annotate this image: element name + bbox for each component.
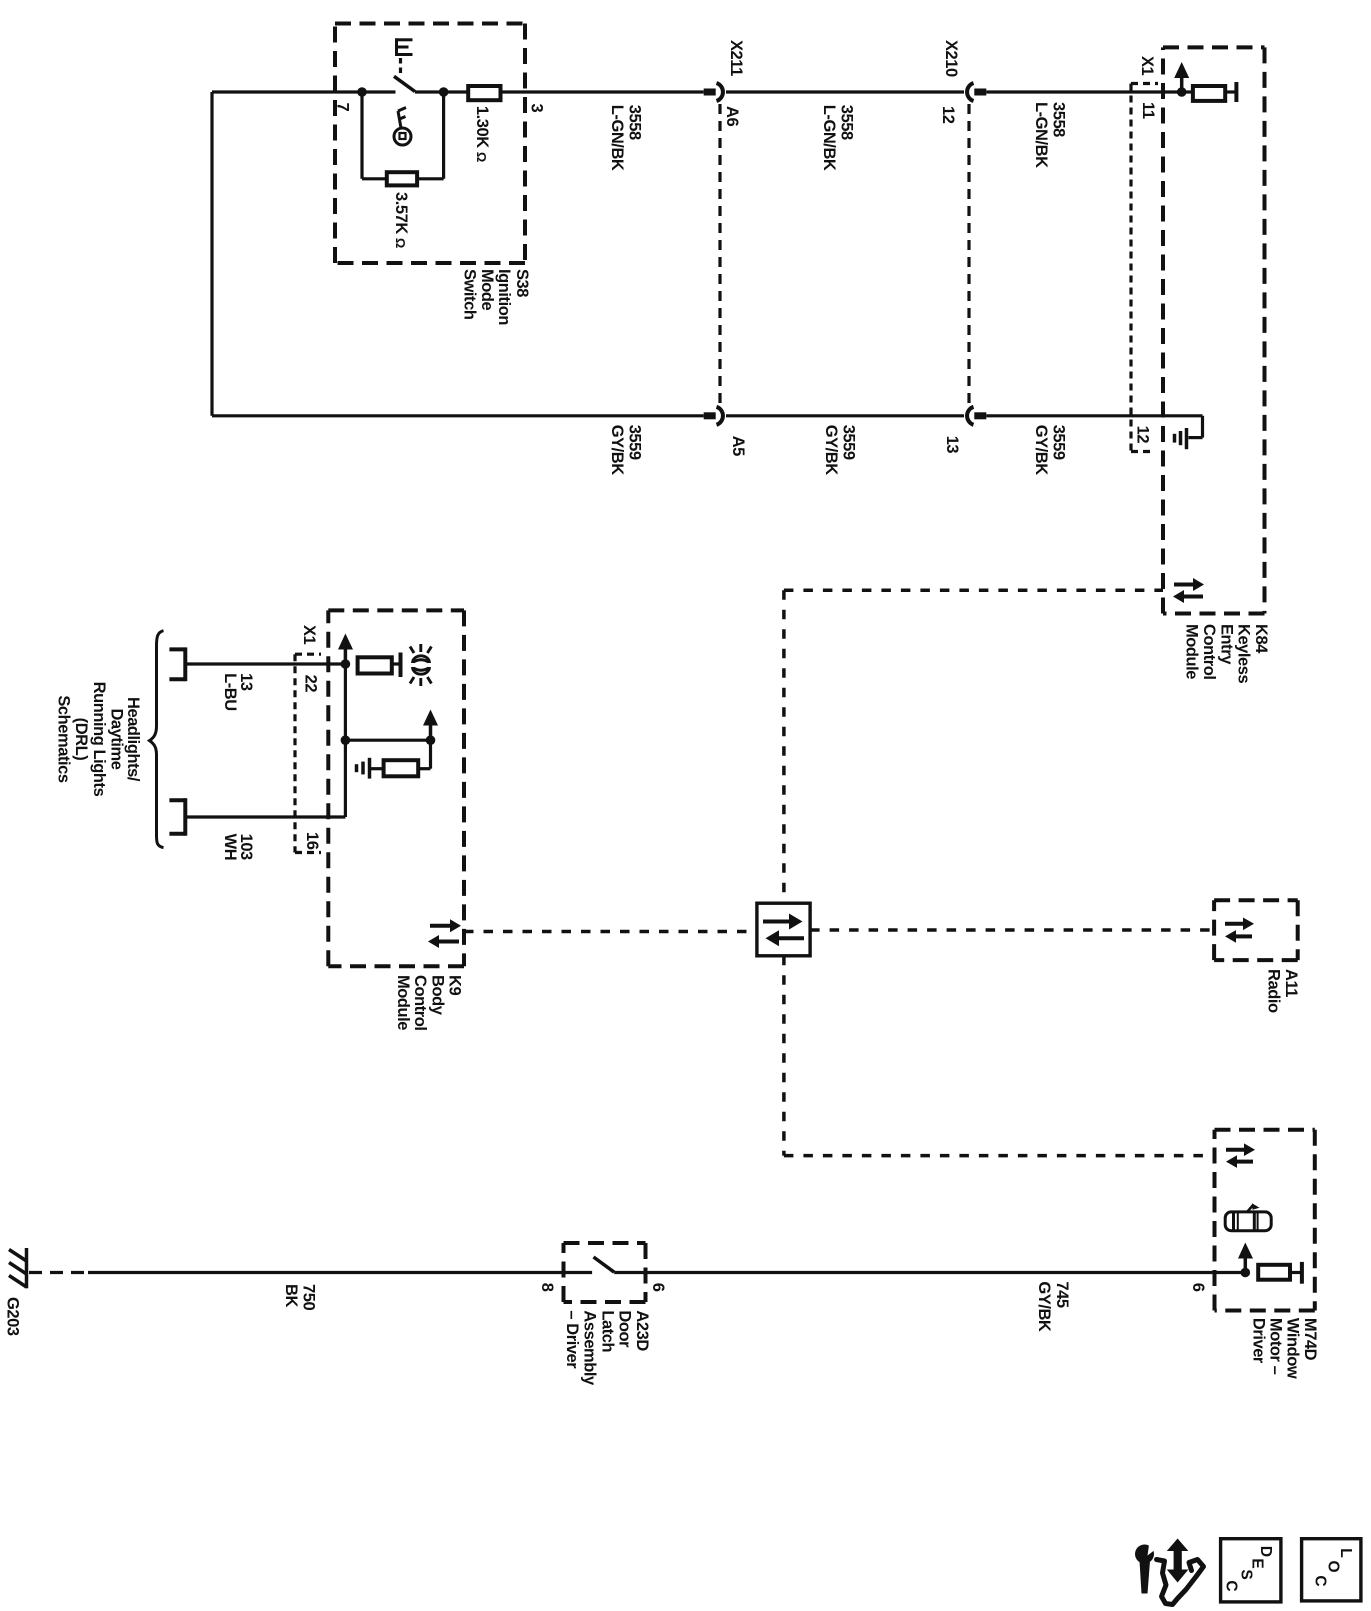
connector X210 dashed line [967, 104, 970, 404]
svg-text:L: L [1337, 1548, 1354, 1557]
connector X210 male tick pin 12 [974, 89, 986, 96]
svg-text:G203: G203 [3, 1297, 21, 1336]
left vertical wire joining pin 7 run [210, 92, 213, 416]
svg-text:WH: WH [221, 834, 239, 861]
node K9 mid branch [341, 735, 351, 745]
connector X211 female arc [717, 83, 723, 101]
svg-text:(DRL): (DRL) [72, 718, 90, 761]
DESC icon box [1221, 1539, 1281, 1602]
svg-text:Headlights/: Headlights/ [124, 697, 142, 782]
ground G203 symbol [9, 1248, 27, 1288]
svg-text:Daytime: Daytime [108, 708, 126, 769]
motor terminal bar [1300, 1262, 1304, 1284]
wire label 3558 L-GN/BK (right) [1032, 102, 1067, 168]
svg-text:A6: A6 [723, 106, 741, 126]
connector 13 female arc [967, 407, 973, 425]
wire A5 to 13 [726, 414, 964, 417]
wire X210 to K84 pin 11 [986, 90, 1181, 93]
wire 745 GY/BK [614, 1271, 1245, 1274]
wire resistor to ground [371, 767, 384, 770]
voltage arrow in K84 [1174, 62, 1189, 92]
svg-text:3559: 3559 [1050, 425, 1068, 460]
A11 radio box [1214, 900, 1298, 960]
connector 13 male tick [974, 412, 986, 419]
svg-text:– Driver: – Driver [563, 1310, 581, 1369]
svg-text:Module: Module [1183, 624, 1201, 679]
connector X210 female arc [967, 83, 973, 101]
svg-text:Control: Control [1200, 624, 1218, 680]
wire label 3558 L-GN/BK (middle) [820, 105, 855, 171]
node at S38 pin 7 side [357, 87, 367, 97]
connector X1 dashed bracket [1131, 84, 1158, 452]
svg-text:Switch: Switch [461, 269, 479, 320]
K84 internal resistor [1193, 86, 1225, 101]
svg-text:Latch: Latch [599, 1310, 617, 1352]
wire 3559 lower run [212, 414, 704, 417]
svg-text:A5: A5 [729, 436, 747, 456]
svg-text:745: 745 [1053, 1281, 1071, 1307]
svg-text:M74D: M74D [1301, 1318, 1319, 1361]
LOC letters [1312, 1548, 1355, 1586]
svg-text:7: 7 [334, 103, 352, 112]
resistor 1.30K [468, 86, 500, 100]
connector X211 dashed line [718, 104, 721, 404]
wire resistor to bar [1290, 1271, 1302, 1274]
K9 branch to resistor [429, 740, 432, 769]
serial data dashed line to K84 [784, 588, 1163, 592]
resistor 3.57K [387, 172, 417, 185]
svg-text:6: 6 [649, 1283, 667, 1292]
wire resistor to X211 [501, 90, 704, 93]
serial data symbol A11 [1225, 918, 1254, 943]
svg-text:D: D [1257, 1546, 1274, 1557]
K9 mid branch wire [345, 739, 430, 742]
serial data symbol K9 [428, 919, 461, 948]
wire label 103 WH [221, 834, 255, 861]
M74D window motor box [1215, 1130, 1315, 1311]
svg-text:L-BU: L-BU [221, 673, 239, 711]
off-page terminal lower [169, 798, 185, 836]
A23D component label [563, 1310, 651, 1386]
svg-text:3: 3 [528, 104, 546, 113]
serial data dashed line to M74D [784, 1154, 1215, 1158]
svg-text:GY/BK: GY/BK [1035, 1281, 1053, 1332]
svg-text:750: 750 [300, 1284, 318, 1310]
dashed ground lead [29, 1271, 88, 1274]
ground symbol in K84 [1175, 428, 1187, 449]
service icon wrench [1135, 1542, 1158, 1594]
off-page terminal upper [169, 647, 185, 681]
serial data dashed line K9 to gateway [464, 930, 757, 934]
node K9 branch right [426, 735, 436, 745]
DRL schematics reference text [55, 682, 142, 797]
svg-text:X1: X1 [1138, 56, 1156, 76]
S38 ignition mode switch box [335, 24, 525, 264]
ground symbol in K9 [357, 758, 370, 779]
wire 103 WH [185, 815, 345, 818]
node K9 pin 22 [341, 659, 351, 669]
svg-text:A23D: A23D [633, 1310, 651, 1351]
K9 component label [394, 975, 464, 1031]
wire label 3559 GY/BK (middle) [822, 425, 857, 476]
svg-text:K84: K84 [1252, 624, 1270, 654]
wire label 3558 L-GN/BK (left) [608, 105, 643, 171]
gateway arrows [763, 914, 804, 947]
svg-text:C: C [1312, 1575, 1329, 1586]
svg-text:12: 12 [1134, 426, 1152, 444]
svg-text:16: 16 [303, 832, 321, 850]
connector A5 female arc [717, 407, 723, 425]
K9 body control module box [328, 610, 464, 966]
wire 750 BK [88, 1271, 592, 1274]
motor arrow up [1238, 1243, 1253, 1273]
serial data gateway box [757, 903, 810, 956]
svg-text:X1: X1 [300, 625, 318, 645]
service icon hand outline [1157, 1560, 1204, 1605]
svg-text:Entry: Entry [1217, 624, 1235, 665]
serial data dashed line gateway down [782, 956, 786, 1156]
svg-text:3558: 3558 [626, 105, 644, 140]
svg-text:L-GN/BK: L-GN/BK [820, 105, 838, 171]
serial data dashed line gateway to A11 [810, 928, 1214, 932]
svg-text:8: 8 [538, 1283, 556, 1292]
K84 component label [1183, 624, 1271, 684]
A11 component label [1265, 969, 1300, 1013]
svg-text:12: 12 [939, 106, 957, 124]
wire label 3559 GY/BK (left) [608, 425, 643, 476]
svg-text:S: S [1238, 1569, 1255, 1579]
svg-text:Motor –: Motor – [1267, 1318, 1285, 1375]
svg-text:O: O [1325, 1560, 1342, 1572]
switch A23D blade [594, 1257, 615, 1272]
serial data symbol K84 [1173, 578, 1204, 603]
svg-text:Control: Control [411, 975, 429, 1031]
svg-text:GY/BK: GY/BK [1032, 425, 1050, 476]
wire resistor to lamp bar [392, 662, 401, 665]
svg-text:S38: S38 [513, 269, 531, 297]
svg-text:Ignition: Ignition [495, 269, 513, 325]
wire X211 to X210 [726, 90, 964, 93]
connector A5 male tick [704, 412, 716, 419]
service icon double arrow [1167, 1539, 1189, 1583]
svg-text:Window: Window [1284, 1318, 1302, 1379]
car icon [1225, 1203, 1271, 1230]
supply terminal bar [1234, 82, 1238, 102]
S38 key-cylinder actuator symbol [397, 38, 413, 56]
connector X211 male tick pin A6 [704, 89, 716, 96]
svg-text:X210: X210 [942, 40, 960, 77]
svg-text:Schematics: Schematics [55, 695, 73, 782]
svg-text:GY/BK: GY/BK [822, 425, 840, 476]
K84 keyless entry control module box [1163, 47, 1265, 613]
svg-text:3558: 3558 [1049, 102, 1067, 137]
svg-text:22: 22 [301, 675, 319, 693]
svg-text:GY/BK: GY/BK [608, 425, 626, 476]
K9 internal vertical wire [344, 664, 347, 817]
wire label 750 BK [282, 1284, 318, 1310]
svg-text:L-GN/BK: L-GN/BK [1032, 102, 1050, 168]
DESC letters [1223, 1546, 1275, 1592]
svg-text:Radio: Radio [1265, 969, 1283, 1013]
svg-text:13: 13 [943, 436, 961, 454]
svg-text:BK: BK [282, 1284, 300, 1307]
node at S38 pin 3 side [439, 87, 449, 97]
indicator lamp symbol [410, 644, 431, 686]
S38 key symbol [394, 108, 411, 146]
wire resistor to supply bar [1182, 90, 1193, 93]
brace [150, 631, 164, 848]
svg-text:11: 11 [1139, 102, 1157, 119]
svg-text:L-GN/BK: L-GN/BK [608, 105, 626, 171]
svg-text:A11: A11 [1282, 969, 1300, 997]
voltage arrow K9 upper [338, 634, 353, 665]
lamp terminal bar [399, 653, 403, 678]
wire label 745 GY/BK [1035, 1281, 1071, 1332]
svg-text:C: C [1223, 1580, 1240, 1591]
svg-text:Body: Body [428, 975, 446, 1016]
serial data dashed line gateway up [782, 590, 786, 903]
wire switch to resistor [415, 90, 468, 93]
svg-text:3.57K Ω: 3.57K Ω [392, 192, 410, 248]
node K84 pin 11 [1177, 87, 1187, 97]
svg-text:3559: 3559 [840, 425, 858, 460]
svg-text:E: E [1249, 1558, 1266, 1568]
svg-text:Door: Door [616, 1310, 634, 1348]
S38 parallel branch wires [360, 92, 363, 179]
serial data symbol M74D [1226, 1143, 1255, 1168]
svg-text:3559: 3559 [626, 425, 644, 460]
A23D door latch box [564, 1243, 646, 1302]
svg-text:6: 6 [1189, 1283, 1207, 1292]
wire label 13 L-BU [221, 673, 255, 711]
svg-text:Running Lights: Running Lights [90, 682, 108, 797]
svg-text:Driver: Driver [1250, 1318, 1268, 1364]
svg-text:Module: Module [394, 975, 412, 1030]
wire 3559 into K84 pin 12 [986, 414, 1202, 417]
M74D internal resistor [1258, 1265, 1290, 1280]
svg-text:K9: K9 [446, 975, 464, 995]
voltage arrow K9 mid [423, 710, 438, 741]
switch S38 blade [394, 76, 415, 91]
svg-text:X211: X211 [727, 40, 745, 76]
wire label 3559 GY/BK (right) [1032, 425, 1067, 476]
svg-text:Mode: Mode [478, 269, 496, 311]
K9 pull resistor [384, 760, 419, 776]
svg-text:1.30K Ω: 1.30K Ω [473, 106, 491, 162]
wire 3558 segment from node to switch [212, 90, 396, 93]
S38 actuator dashed link [399, 58, 402, 75]
svg-text:3558: 3558 [838, 105, 856, 140]
connector X1 bracket at K9 [295, 654, 321, 852]
S38 component label [461, 269, 531, 325]
wire 13 L-BU [185, 662, 345, 665]
M74D component label [1250, 1318, 1320, 1379]
svg-text:Assembly: Assembly [581, 1310, 599, 1386]
svg-text:Keyless: Keyless [1235, 624, 1253, 684]
K9 resistor on pin 22 branch [358, 657, 392, 673]
LOC icon box [1302, 1539, 1361, 1601]
node M74D pin 6 [1241, 1268, 1251, 1278]
